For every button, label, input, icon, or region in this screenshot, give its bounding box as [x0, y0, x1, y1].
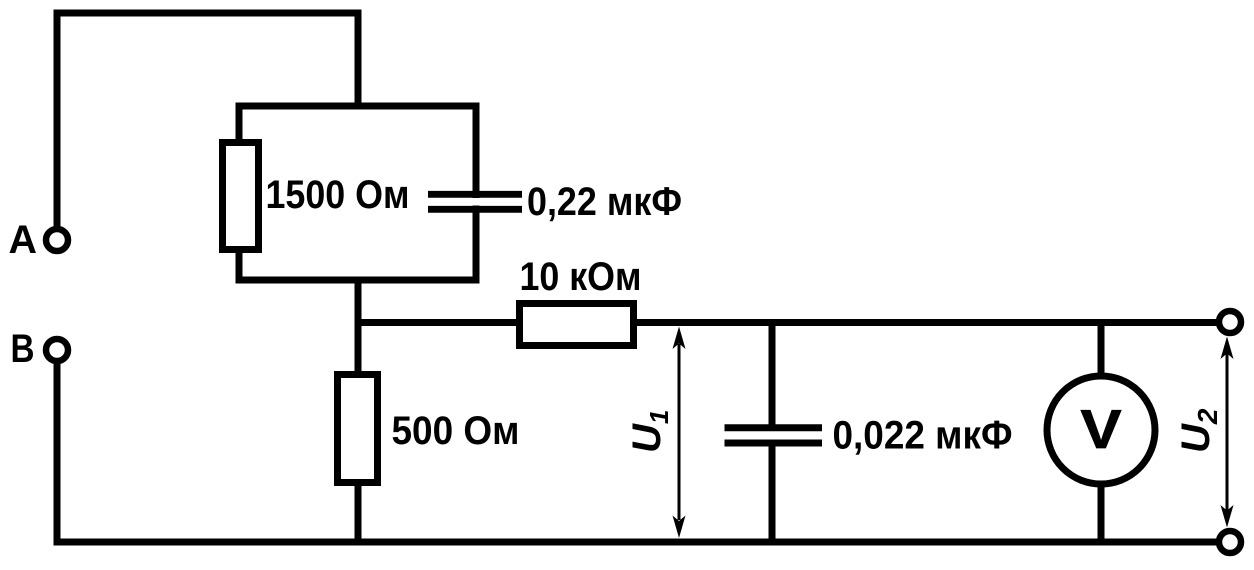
- terminal A circle: [46, 229, 68, 251]
- capacitor C1 plate top: [428, 191, 522, 198]
- terminal B circle: [46, 339, 68, 361]
- svg-text:U1: U1: [625, 410, 674, 453]
- terminal output top circle: [1219, 311, 1241, 333]
- node box (parallel R-C rectangle): [239, 106, 476, 280]
- capacitor C2 plate top: [725, 424, 823, 431]
- voltmeter V1 circle: [1047, 376, 1155, 484]
- svg-text:A: A: [9, 218, 38, 262]
- U1 arrowhead down: [673, 516, 686, 539]
- svg-text:0,22 мкФ: 0,22 мкФ: [527, 180, 682, 224]
- U2 dimension arrow line: [1226, 352, 1229, 512]
- svg-text:В: В: [11, 327, 35, 371]
- capacitor C2 plate bottom: [725, 440, 823, 447]
- svg-text:10 кОм: 10 кОм: [520, 255, 642, 299]
- capacitor C2 bottom lead wire: [769, 447, 776, 543]
- svg-text:U2: U2: [1174, 408, 1223, 453]
- svg-text:500 Ом: 500 Ом: [392, 409, 520, 453]
- U1 arrowhead up: [673, 327, 686, 350]
- voltmeter top lead wire: [1098, 322, 1105, 378]
- capacitor C1 plate bottom: [428, 206, 522, 213]
- U2 arrowhead down: [1221, 505, 1234, 528]
- voltmeter bottom lead wire: [1098, 482, 1105, 542]
- svg-text:1500 Ом: 1500 Ом: [266, 173, 410, 217]
- wire: A terminal up, across top, down to box top: [57, 13, 358, 229]
- U1 dimension arrow line: [678, 344, 681, 520]
- resistor R2 10 кОм body: [520, 304, 634, 346]
- resistor R1 1500 Ом body: [223, 143, 259, 250]
- wire: B terminal down and bottom rail: [57, 361, 1230, 542]
- wire: main horizontal rail: [358, 319, 1230, 326]
- terminal output bottom circle: [1219, 531, 1241, 553]
- resistor R3 500 Ом body: [338, 375, 378, 483]
- U2 arrowhead up: [1221, 337, 1234, 360]
- svg-text:0,022 мкФ: 0,022 мкФ: [833, 414, 1013, 458]
- svg-text:V: V: [1081, 398, 1122, 460]
- capacitor C2 top lead wire: [769, 322, 776, 425]
- wire: capacitor gap on box right edge: [469, 198, 483, 206]
- wire: box bottom down through node to bottom rail: [355, 280, 362, 542]
